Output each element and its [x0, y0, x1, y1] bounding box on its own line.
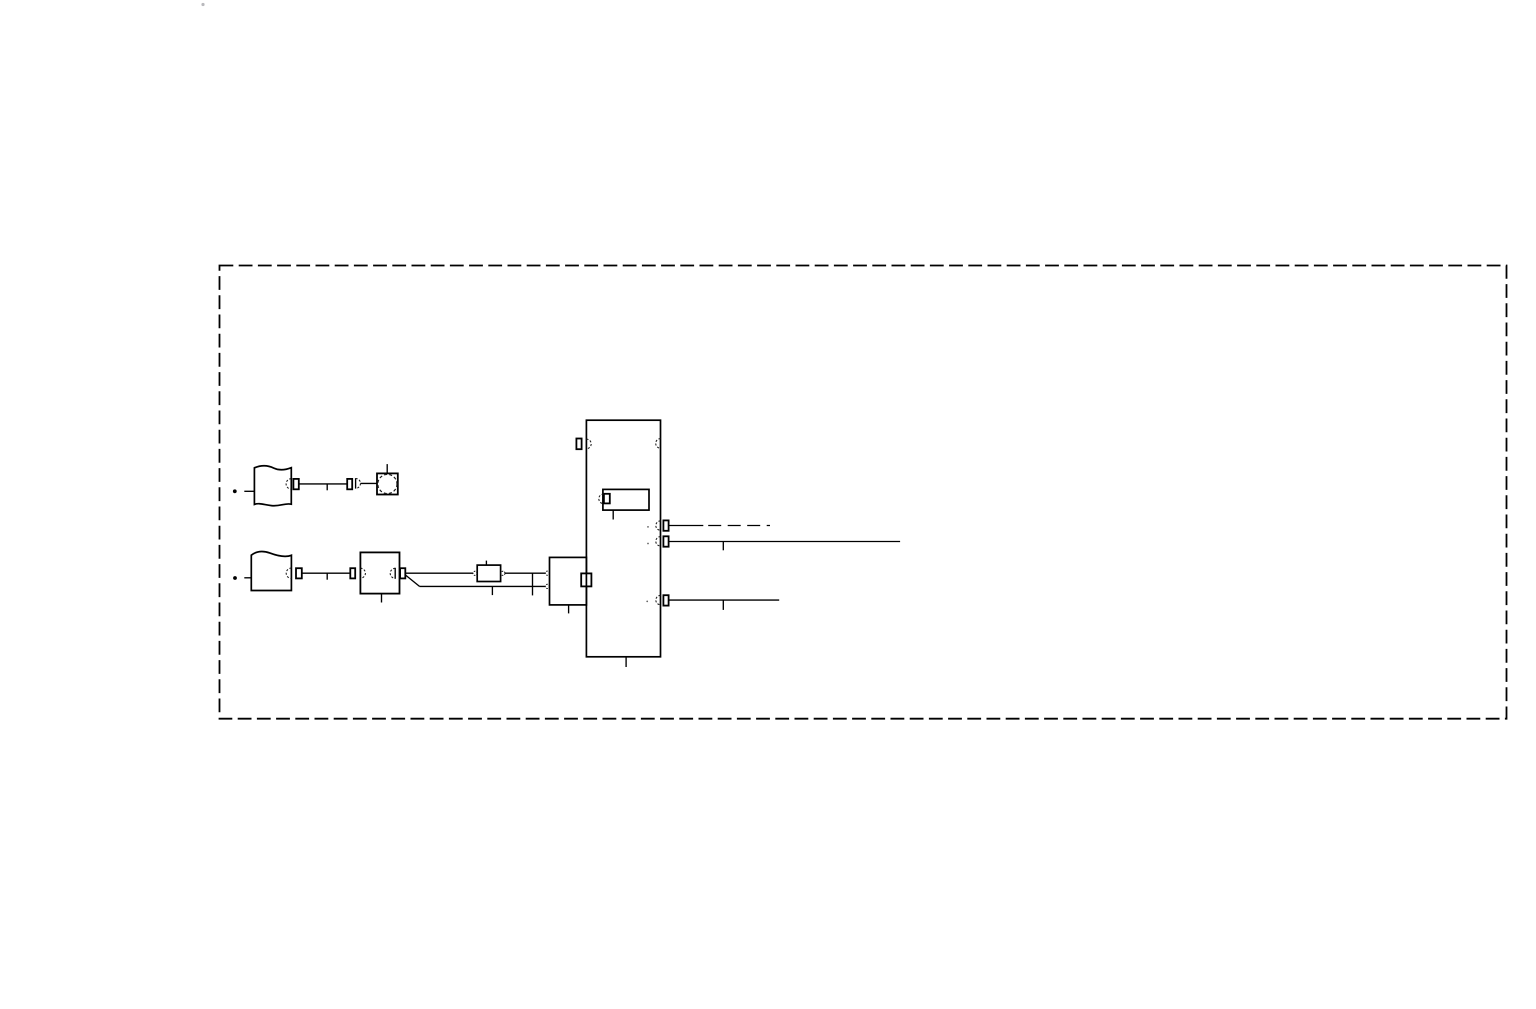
block SB (small inline block) — [477, 561, 500, 582]
socket arc L top-right inside — [656, 439, 661, 449]
dashed boundary frame — [220, 266, 1507, 719]
block L (tall left system block) — [586, 420, 660, 667]
wire IN1 stub — [244, 490, 254, 492]
socket D1a half-disc — [356, 478, 361, 488]
port P3 — [296, 568, 302, 578]
wire SB to M — [505, 573, 545, 595]
socket arc S2 left inside — [360, 568, 365, 578]
port L right2 — [663, 536, 668, 546]
port L right3 — [663, 595, 668, 605]
node ring c1 — [473, 571, 477, 575]
node IN1 bullet — [233, 489, 237, 493]
socket D2a half-disc S2 right inside — [390, 568, 395, 579]
socket arc L right port1 — [656, 521, 661, 530]
port on IR left — [604, 494, 610, 504]
block S1 (square with inscribed circle) — [377, 464, 398, 494]
wire S2 lower branch diagonal — [405, 575, 419, 587]
port L top-left — [576, 439, 581, 450]
wire lower branch to M — [420, 586, 546, 595]
node dot L1 — [647, 526, 649, 528]
socket arc L right port3 — [656, 595, 661, 604]
wire S2 to SB upper — [405, 572, 473, 574]
node dot L2 — [647, 543, 649, 545]
wire W1 to P2 — [299, 484, 347, 490]
port P1 on W1 — [293, 479, 298, 489]
wire P3 to P4 — [302, 573, 351, 580]
wire IN2 stub — [244, 577, 251, 579]
socket arc IR outside-left — [599, 494, 604, 504]
port socket arc W1 right — [286, 479, 291, 489]
socket arc L right port2 — [656, 537, 661, 546]
wire L right3 to MB2 — [669, 600, 780, 610]
block W1 (wavy source block, upper-left) — [254, 466, 291, 506]
block S2 (square converter block) — [360, 552, 399, 602]
port P2 — [347, 479, 352, 489]
block M (adapter block on L left edge) — [550, 557, 587, 613]
port P5 on S2 right — [400, 568, 405, 578]
node ring c4 — [545, 584, 549, 588]
node ring c2 — [501, 571, 505, 575]
stray faint dot top — [201, 3, 204, 6]
block IR (inner rect of L) — [603, 489, 649, 519]
wire to S1 — [361, 482, 378, 484]
block W4 (wavy source block, lower-left) — [251, 552, 291, 591]
port L right1 — [663, 520, 668, 530]
port socket arc W4 right — [286, 568, 291, 578]
node dot L3 — [646, 601, 648, 603]
port P4 — [350, 568, 355, 578]
node IN2 bullet — [233, 576, 237, 580]
socket arc L top-left inside — [586, 439, 591, 449]
port PR (large port between M and L) — [581, 573, 591, 586]
node ring c3 — [545, 571, 549, 575]
wire L right2 to A left2 — [669, 542, 901, 551]
wire D1 dashed from L right1 — [669, 525, 770, 527]
